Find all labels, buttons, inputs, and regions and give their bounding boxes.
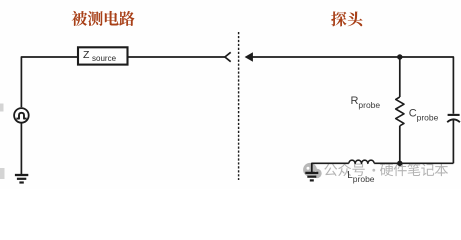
bottom wire left segment bbox=[312, 163, 349, 172]
dashed divider between circuit and probe bbox=[238, 32, 240, 180]
watermark icon bbox=[303, 163, 322, 178]
header label 探头 bbox=[331, 11, 346, 26]
capacitor C_probe curved plate bbox=[447, 119, 460, 122]
filled arrowhead probe input bbox=[245, 52, 253, 61]
svg-text:C: C bbox=[409, 107, 417, 119]
watermark text 公众号·硬件笔记本 bbox=[324, 163, 448, 176]
svg-text:R: R bbox=[351, 95, 359, 107]
svg-text:probe: probe bbox=[417, 113, 439, 123]
svg-text:probe: probe bbox=[353, 174, 375, 184]
left-edge watermark fragments bbox=[0, 104, 4, 112]
open chevron arrowhead bbox=[225, 52, 231, 61]
ground right bbox=[305, 173, 318, 181]
resistor R_probe zigzag bbox=[396, 97, 404, 126]
top wire probe bbox=[252, 57, 453, 114]
svg-text:Z: Z bbox=[83, 49, 90, 61]
wire top-left corner bbox=[21, 57, 77, 107]
wire source to ground bbox=[20, 123, 22, 175]
inductor L_probe coil bbox=[349, 160, 374, 163]
junction node bottom bbox=[397, 161, 402, 166]
wire resistor to bottom bbox=[399, 126, 401, 164]
capacitor C_probe top plate bbox=[448, 114, 460, 116]
junction node top bbox=[397, 54, 402, 59]
pulse source V1 bbox=[14, 108, 29, 123]
ground left bbox=[15, 175, 28, 183]
svg-text:probe: probe bbox=[358, 100, 380, 110]
wire capacitor to bottom bbox=[452, 120, 454, 164]
svg-text:source: source bbox=[92, 54, 117, 63]
wire to resistor bbox=[399, 57, 401, 97]
bottom wire right segment bbox=[374, 162, 453, 164]
pulse waveform glyph bbox=[16, 113, 26, 119]
header label 被测电路 bbox=[72, 11, 88, 26]
impedance box Z_source bbox=[78, 47, 128, 64]
wire box to divider bbox=[128, 56, 225, 58]
